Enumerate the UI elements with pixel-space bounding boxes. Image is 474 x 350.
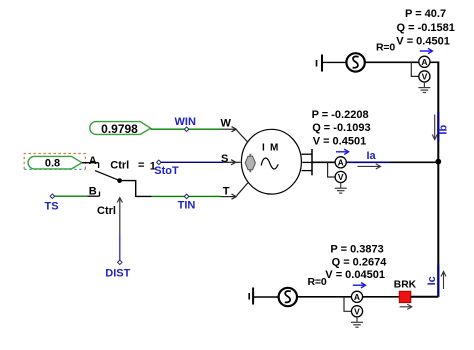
- svg-text:Ctrl: Ctrl: [97, 205, 116, 217]
- svg-text:P = 40.7: P = 40.7: [405, 8, 446, 20]
- svg-text:V: V: [422, 72, 428, 82]
- svg-text:A: A: [89, 155, 97, 167]
- svg-text:TIN: TIN: [178, 200, 196, 212]
- svg-text:Ia: Ia: [367, 150, 377, 162]
- svg-text:TS: TS: [44, 201, 58, 213]
- svg-text:StoT: StoT: [154, 165, 179, 177]
- svg-text:A: A: [354, 292, 360, 302]
- svg-text:T: T: [223, 185, 230, 197]
- svg-text:Ctrl: Ctrl: [110, 159, 129, 171]
- svg-text:V: V: [338, 172, 344, 182]
- svg-text:W: W: [221, 117, 232, 129]
- svg-text:V = 0.4501: V = 0.4501: [313, 135, 367, 147]
- svg-text:Q = -0.1093: Q = -0.1093: [312, 122, 370, 134]
- svg-text:R=0: R=0: [308, 276, 327, 288]
- svg-text:V: V: [354, 307, 360, 317]
- svg-text:DIST: DIST: [105, 268, 130, 280]
- svg-text:I M: I M: [262, 142, 280, 153]
- svg-text:Ib: Ib: [438, 125, 450, 135]
- svg-text:0.9798: 0.9798: [101, 122, 138, 136]
- svg-text:BRK: BRK: [394, 279, 417, 290]
- svg-text:A: A: [421, 57, 427, 67]
- svg-text:=: =: [138, 159, 144, 171]
- svg-text:0.8: 0.8: [45, 158, 60, 170]
- svg-text:Q = 0.2674: Q = 0.2674: [332, 256, 388, 268]
- svg-text:V = 0.04501: V = 0.04501: [325, 269, 385, 281]
- svg-text:A: A: [338, 158, 344, 168]
- svg-text:P = 0.3873: P = 0.3873: [330, 244, 383, 256]
- svg-text:R=0: R=0: [376, 42, 395, 54]
- svg-text:Q = -0.1581: Q = -0.1581: [397, 22, 455, 34]
- svg-text:P = -0.2208: P = -0.2208: [312, 109, 369, 121]
- svg-text:Ic: Ic: [426, 276, 438, 285]
- svg-text:WIN: WIN: [175, 116, 196, 128]
- svg-text:V = 0.4501: V = 0.4501: [396, 36, 450, 48]
